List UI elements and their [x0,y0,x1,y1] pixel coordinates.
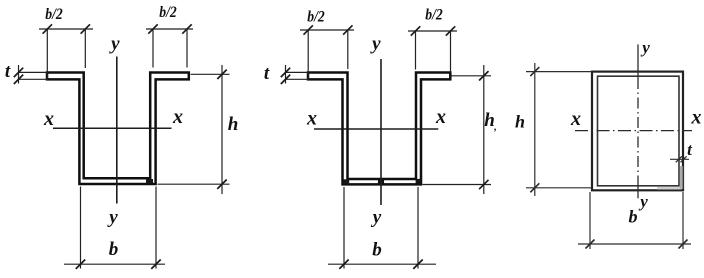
dimension b/2 left fig1 [39,29,93,81]
svg-text:x: x [570,108,581,130]
x axis fig2 [314,128,438,130]
svg-text:b: b [372,240,382,261]
svg-text:b: b [109,239,119,260]
thickness callout t fig2 [286,65,309,84]
svg-text:y: y [371,207,382,228]
thickness callout t fig1 [19,65,48,84]
svg-text:y: y [107,207,118,228]
svg-text:,: , [493,122,497,133]
y axis fig2 [380,59,382,205]
x centerline fig3 (dash-dot) [575,130,692,132]
y axis fig3 [637,44,639,78]
box outer rect [592,72,683,191]
dimension h fig2 [423,65,492,194]
svg-text:b: b [629,207,638,227]
svg-text:x: x [435,106,446,128]
dimension b bottom fig2 [328,187,436,269]
corner blot bottom-right inner [146,179,153,183]
svg-text:x: x [43,108,54,130]
svg-text:x: x [691,107,702,129]
dimension b/2 right fig1 [146,29,193,68]
svg-text:y: y [370,34,381,55]
dimension b fig3 [578,192,691,249]
svg-text:y: y [638,192,648,211]
box inner rect [598,76,680,186]
dimension b/2 right fig2 [408,31,457,73]
svg-text:y: y [109,34,120,55]
channel profile 2 right half [383,73,451,185]
svg-text:x: x [172,106,183,128]
svg-text:b/2: b/2 [307,9,325,26]
y axis (vertical) fig1 [116,57,118,204]
grey wall shading right [680,166,683,189]
svg-text:b/2: b/2 [45,6,63,23]
svg-text:h: h [228,114,239,135]
dimension h fig1 [158,65,230,194]
channel profile 2 left half [308,73,379,185]
svg-text:h: h [484,110,495,131]
svg-text:h: h [515,112,525,132]
x axis (horizontal) fig1 [53,127,172,129]
svg-text:y: y [640,38,650,57]
corner blot bottom-right fig2 [416,179,421,184]
corner blot bottom-left fig2 [343,179,349,184]
thickness callout t fig3 [670,158,689,160]
svg-text:x: x [306,108,317,130]
dimension h fig3 [526,63,592,196]
dimension b bottom fig1 [64,187,165,269]
svg-text:t: t [5,61,11,82]
svg-text:b/2: b/2 [425,7,443,24]
channel profile 1 [47,73,189,185]
svg-text:b/2: b/2 [159,4,177,21]
dimension b/2 left fig2 [300,30,354,81]
svg-text:t: t [264,63,270,84]
